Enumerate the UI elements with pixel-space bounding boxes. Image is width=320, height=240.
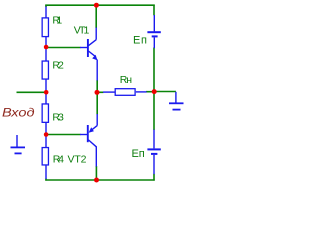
svg-text:Rн: Rн [120, 74, 132, 86]
svg-text:R3: R3 [52, 112, 64, 124]
svg-text:Eп: Eп [132, 148, 145, 160]
svg-text:VT2: VT2 [68, 153, 87, 165]
svg-text:Eп: Eп [133, 34, 147, 46]
svg-text:R2: R2 [52, 60, 64, 72]
svg-text:R1: R1 [52, 15, 62, 27]
svg-text:R4: R4 [53, 153, 64, 165]
svg-text:Вход: Вход [2, 106, 35, 120]
svg-text:VT1: VT1 [74, 25, 90, 37]
